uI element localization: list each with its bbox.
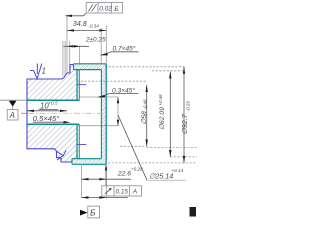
svg-text:Б: Б (90, 207, 96, 217)
svg-text:0.3×45°: 0.3×45° (112, 87, 135, 95)
svg-text:0.15: 0.15 (116, 189, 129, 196)
svg-text:0.02: 0.02 (99, 6, 112, 13)
svg-text:A: A (132, 189, 138, 196)
svg-text:-0.23: -0.23 (186, 101, 191, 112)
svg-text:0.7×45°: 0.7×45° (113, 44, 136, 52)
svg-text:∅25.14: ∅25.14 (149, 172, 173, 181)
svg-text:∅58: ∅58 (141, 111, 148, 125)
svg-text:0.5×45°: 0.5×45° (33, 114, 59, 123)
svg-text:+0.28: +0.28 (131, 167, 143, 172)
svg-text:A: A (9, 111, 15, 120)
svg-text:1: 1 (42, 67, 46, 76)
svg-text:∅92.7: ∅92.7 (180, 113, 189, 134)
svg-text:-0.46: -0.46 (142, 99, 147, 110)
svg-text:+0.46: +0.46 (158, 94, 163, 106)
svg-text:34.8: 34.8 (73, 19, 87, 28)
svg-text:+0.14: +0.14 (172, 168, 184, 173)
svg-text:22.6: 22.6 (117, 171, 131, 178)
svg-text:-0.34: -0.34 (88, 24, 99, 29)
svg-text:∅62.09: ∅62.09 (159, 107, 166, 130)
svg-text:+0.5: +0.5 (48, 101, 58, 107)
svg-text:Б: Б (114, 6, 119, 13)
svg-text:2±0.25: 2±0.25 (85, 37, 106, 44)
